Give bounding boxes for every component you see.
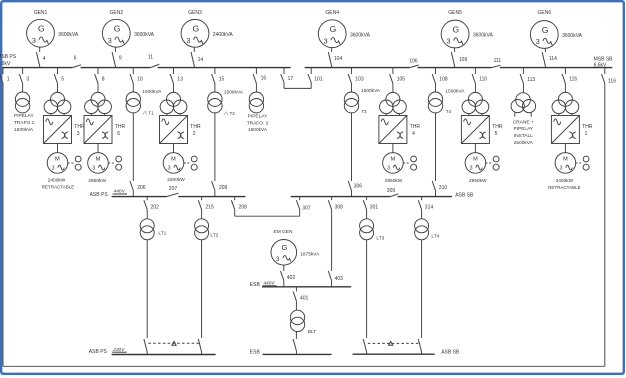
converter THR 5 <box>461 116 502 144</box>
svg-text:M: M <box>171 157 176 163</box>
transformer LT4 <box>415 210 440 240</box>
svg-text:GEN5: GEN5 <box>448 10 462 16</box>
svg-text:113: 113 <box>527 77 535 83</box>
breaker 6 (bus tie) <box>72 55 81 67</box>
svg-text:THR: THR <box>190 124 201 130</box>
three-winding transformer (THR 3 feed) <box>44 84 71 116</box>
wire bus-tie link <box>284 83 311 89</box>
wire <box>173 144 175 153</box>
svg-text:G: G <box>114 24 121 34</box>
motor 2400kW RETRACTABLE <box>42 153 74 190</box>
wire LT4 secondary <box>421 240 423 338</box>
svg-text:T3: T3 <box>361 109 367 114</box>
svg-text:LT1: LT1 <box>158 230 166 236</box>
svg-text:∕∖ T2: ∕∖ T2 <box>224 111 236 116</box>
motor 2950kW <box>465 153 487 184</box>
svg-text:5: 5 <box>61 76 64 82</box>
bus ASB SB 230V <box>353 349 460 355</box>
breaker 9 <box>112 47 122 68</box>
node delta symbol (PS) <box>172 341 176 345</box>
breaker 209 <box>212 181 228 197</box>
svg-text:M: M <box>563 157 568 163</box>
converter THR 1 <box>551 116 592 144</box>
svg-text:LT2: LT2 <box>210 232 218 238</box>
svg-text:3: 3 <box>276 256 280 263</box>
transformer LT1 <box>140 210 166 240</box>
svg-text:RETRACTABLE: RETRACTABLE <box>548 185 580 190</box>
fan <box>184 156 197 170</box>
svg-text:GEN2: GEN2 <box>109 10 123 16</box>
wire interconnector ring PS-SB <box>3 84 605 367</box>
converter THR 3 <box>44 116 85 144</box>
svg-text:1500kVA: 1500kVA <box>445 88 465 94</box>
wire <box>435 113 437 181</box>
svg-text:402: 402 <box>287 275 296 281</box>
svg-text:401: 401 <box>300 296 309 302</box>
svg-text:LT3: LT3 <box>376 235 384 241</box>
svg-text:ASB PS: ASB PS <box>90 192 109 198</box>
svg-text:13: 13 <box>177 76 183 82</box>
breaker 314 <box>418 197 433 211</box>
breaker 115 <box>562 68 577 84</box>
svg-text:GEN3: GEN3 <box>188 10 202 16</box>
svg-text:209: 209 <box>219 185 228 191</box>
svg-text:3: 3 <box>186 36 190 45</box>
svg-text:G: G <box>542 25 549 35</box>
wire <box>351 113 353 181</box>
svg-text:103: 103 <box>355 76 364 82</box>
svg-text:202: 202 <box>151 204 160 210</box>
svg-text:TRAFO. 2: TRAFO. 2 <box>247 120 269 126</box>
svg-text:PIPELAY: PIPELAY <box>248 114 268 120</box>
breaker 114 <box>542 48 557 67</box>
svg-text:1500kVA: 1500kVA <box>14 127 34 133</box>
fan <box>68 156 81 170</box>
breaker 109 <box>451 48 467 68</box>
breaker 307 <box>296 197 310 212</box>
svg-text:114: 114 <box>549 56 557 62</box>
breaker 103 <box>348 68 364 84</box>
breaker 206 <box>130 181 146 197</box>
svg-text:115: 115 <box>569 76 577 82</box>
svg-text:2500kVA: 2500kVA <box>514 140 534 146</box>
svg-text:4: 4 <box>43 56 46 62</box>
bus MSB SB 6,6kV <box>305 56 614 68</box>
svg-text:ESB: ESB <box>250 282 261 288</box>
svg-text:309: 309 <box>387 188 396 194</box>
three-winding transformer (THR 2 feed) <box>160 84 187 116</box>
transformer T3 1500kVA <box>344 84 381 114</box>
svg-text:5: 5 <box>495 131 498 137</box>
svg-text:108: 108 <box>439 76 448 82</box>
svg-text:16: 16 <box>261 76 267 82</box>
breaker 401 <box>293 287 308 302</box>
wire LT1 secondary <box>146 240 148 338</box>
svg-text:306: 306 <box>354 183 363 189</box>
svg-text:17: 17 <box>288 76 294 82</box>
svg-text:TRAFO 1: TRAFO 1 <box>14 120 35 126</box>
svg-text:3: 3 <box>470 165 473 171</box>
wire <box>474 144 476 153</box>
breaker LT1 LV <box>144 339 147 355</box>
svg-text:EM GEN: EM GEN <box>274 229 293 235</box>
wire LT3 secondary <box>366 240 368 338</box>
svg-text:THR: THR <box>115 124 126 130</box>
svg-text:208: 208 <box>239 204 248 210</box>
three-winding transformer (THR 5 feed) <box>462 84 489 116</box>
breaker 202 <box>144 197 159 211</box>
svg-text:206: 206 <box>137 185 146 191</box>
breaker 15 <box>212 68 225 84</box>
svg-text:GEN1: GEN1 <box>34 10 48 16</box>
svg-text:3600kVA: 3600kVA <box>473 33 494 39</box>
svg-text:THR: THR <box>582 124 593 130</box>
svg-text:GEN4: GEN4 <box>325 10 339 16</box>
generator GEN5 3600kVA <box>441 10 493 48</box>
bus ASB SB 440V <box>291 192 474 198</box>
fan <box>108 156 121 170</box>
svg-text:3: 3 <box>560 165 563 171</box>
svg-text:101: 101 <box>314 77 323 83</box>
svg-text:15: 15 <box>219 76 225 82</box>
bus ESB 440V <box>250 280 351 288</box>
svg-text:2950kW: 2950kW <box>469 178 487 184</box>
interlock dashed link (SB 230V) <box>368 342 421 344</box>
svg-text:ASB SB: ASB SB <box>441 349 460 355</box>
svg-text:308: 308 <box>335 204 344 210</box>
wire <box>214 113 216 181</box>
breaker 301 <box>363 197 378 211</box>
breaker 208 <box>231 197 247 211</box>
svg-text:RETRACTABLE: RETRACTABLE <box>42 185 74 190</box>
svg-text:THR: THR <box>410 124 421 130</box>
breaker 10 <box>130 68 143 84</box>
svg-text:6,6kV: 6,6kV <box>0 61 11 67</box>
svg-text:2400kW: 2400kW <box>48 178 66 184</box>
svg-text:ASB PS: ASB PS <box>89 349 108 355</box>
svg-text:8: 8 <box>102 76 105 82</box>
svg-text:2200kW: 2200kW <box>167 177 185 183</box>
svg-text:1: 1 <box>7 76 10 82</box>
svg-text:6: 6 <box>74 55 77 61</box>
svg-text:2950kW: 2950kW <box>385 178 403 184</box>
svg-text:14: 14 <box>198 57 204 63</box>
svg-text:3: 3 <box>32 36 36 45</box>
svg-text:215: 215 <box>205 204 214 210</box>
three-winding transformer (THR 1 feed) <box>552 84 579 116</box>
svg-text:9: 9 <box>119 56 122 62</box>
svg-text:M: M <box>96 157 101 163</box>
generator EM GEN 1875kVA <box>271 229 320 265</box>
svg-text:1500kVA: 1500kVA <box>224 89 244 95</box>
svg-text:2400kW: 2400kW <box>556 178 574 184</box>
wire <box>57 144 59 153</box>
motor 2200kW <box>163 153 185 184</box>
three-winding transformer CRANE+PIPELAY INSTALL 2500kVA <box>511 84 536 146</box>
svg-text:LT4: LT4 <box>431 233 439 239</box>
svg-text:4: 4 <box>412 131 415 137</box>
breaker 101 <box>308 68 323 89</box>
bus MSB PS 6,6kV <box>0 54 291 67</box>
interlock dashed link (PS 230V) <box>148 342 200 344</box>
svg-text:PIPELAY: PIPELAY <box>513 126 533 132</box>
svg-text:1: 1 <box>585 131 588 137</box>
svg-text:3: 3 <box>387 165 390 171</box>
node delta symbol (SB) <box>389 342 393 346</box>
svg-text:3: 3 <box>168 165 171 171</box>
breaker 309 (bus tie) <box>387 188 399 197</box>
svg-text:1500kVA: 1500kVA <box>361 88 381 94</box>
breaker 14 <box>191 47 203 67</box>
transformer T2 1500kVA <box>208 84 244 116</box>
svg-text:403: 403 <box>335 276 344 282</box>
motor 2950kW <box>383 153 404 184</box>
svg-text:ESB: ESB <box>250 349 261 355</box>
breaker 4 <box>36 47 45 68</box>
breaker 402 <box>281 265 296 287</box>
motor 2950kW <box>88 153 109 184</box>
svg-text:T4: T4 <box>446 109 452 114</box>
svg-text:110: 110 <box>479 76 487 82</box>
svg-text:3: 3 <box>447 37 451 46</box>
svg-text:3: 3 <box>92 165 95 171</box>
svg-text:G: G <box>330 24 337 34</box>
svg-text:11: 11 <box>148 55 153 61</box>
breaker 13 <box>170 68 183 84</box>
breaker 16 <box>253 68 266 84</box>
svg-text:3: 3 <box>324 36 328 45</box>
converter THR 6 <box>84 116 125 144</box>
breaker 105 <box>390 68 406 84</box>
breaker 306 <box>348 181 362 197</box>
breaker 111 (bus tie) <box>492 58 502 68</box>
wire <box>564 144 566 153</box>
svg-text:∕∖ T1: ∕∖ T1 <box>143 111 155 116</box>
converter THR 4 <box>379 116 420 144</box>
breaker 310 <box>432 181 447 197</box>
breaker 215 <box>198 197 214 211</box>
svg-text:CRANE +: CRANE + <box>513 119 534 125</box>
breaker 5 <box>54 68 64 84</box>
svg-text:INSTALL: INSTALL <box>514 133 533 139</box>
motor 2400kW RETRACTABLE <box>548 153 580 190</box>
svg-text:GEN6: GEN6 <box>537 10 551 16</box>
svg-text:G: G <box>38 24 45 34</box>
generator GEN6 3600kVA <box>530 10 582 48</box>
transformer T1 1500kVA <box>126 84 162 116</box>
svg-text:105: 105 <box>397 76 406 82</box>
transformer BLT <box>290 301 316 335</box>
wire <box>392 144 394 153</box>
svg-text:301: 301 <box>370 204 379 210</box>
svg-text:3600kVA: 3600kVA <box>562 33 583 39</box>
breaker 104 <box>328 48 342 68</box>
wire <box>132 113 134 181</box>
breaker 17 <box>281 68 294 83</box>
fan <box>576 156 589 170</box>
transformer LT2 <box>195 210 219 240</box>
svg-text:3: 3 <box>26 76 29 82</box>
wire LT2 secondary <box>201 240 203 338</box>
svg-text:G: G <box>281 243 287 252</box>
wire bridge 208-307 <box>235 210 300 217</box>
svg-text:M: M <box>55 157 60 163</box>
svg-text:ASB SB: ASB SB <box>455 192 474 198</box>
svg-text:310: 310 <box>439 185 448 191</box>
converter THR 2 <box>160 116 201 144</box>
transformer T4 1500kVA <box>428 84 465 114</box>
breaker LT2 LV <box>198 339 201 355</box>
svg-text:314: 314 <box>425 204 434 210</box>
breaker LT3 LV <box>363 339 366 354</box>
svg-text:10: 10 <box>137 76 143 82</box>
breaker (BLT LV) <box>293 332 296 355</box>
svg-text:111: 111 <box>494 58 502 64</box>
svg-text:MSB SB: MSB SB <box>594 56 614 62</box>
breaker 11 (bus tie) <box>148 55 159 68</box>
svg-text:G: G <box>453 24 460 34</box>
bus ASB PS 230V <box>89 347 216 355</box>
three-winding transformer (THR 4 feed) <box>380 84 407 116</box>
svg-text:109: 109 <box>459 57 468 63</box>
breaker 3 <box>19 68 29 84</box>
svg-text:207: 207 <box>169 186 178 192</box>
breaker 108 <box>432 68 448 84</box>
svg-text:2400kVA: 2400kVA <box>213 32 234 38</box>
svg-text:116: 116 <box>608 79 616 85</box>
generator GEN1 3600kVA <box>27 10 79 47</box>
svg-text:3: 3 <box>52 165 55 171</box>
svg-text:BLT: BLT <box>308 329 317 335</box>
bus ASB PS 440V <box>90 189 246 198</box>
svg-text:3: 3 <box>108 36 112 45</box>
transformer PIPELAY TRAFO 1 1500kVA <box>14 84 35 133</box>
generator GEN2 3600kVA <box>102 10 154 47</box>
svg-text:6: 6 <box>117 131 120 137</box>
svg-text:3600kVA: 3600kVA <box>350 32 371 38</box>
svg-text:2: 2 <box>193 131 196 137</box>
svg-text:2950kW: 2950kW <box>88 178 106 184</box>
breaker 8 <box>95 68 105 84</box>
generator GEN3 2400kVA <box>181 10 233 47</box>
three-winding transformer (THR 6 feed) <box>85 84 112 116</box>
svg-text:MSB PS: MSB PS <box>0 54 17 60</box>
svg-text:3: 3 <box>536 37 540 46</box>
breaker 110 <box>472 68 487 84</box>
svg-text:THR: THR <box>74 124 85 130</box>
breaker 308 <box>328 197 343 211</box>
bus ESB 230V (bottom) <box>250 349 332 355</box>
transformer LT3 <box>360 210 385 242</box>
breaker 403 <box>328 271 343 287</box>
svg-text:M: M <box>391 157 396 163</box>
svg-text:M: M <box>473 157 478 163</box>
svg-text:3: 3 <box>77 131 80 137</box>
svg-text:PIPELAY: PIPELAY <box>14 113 34 119</box>
svg-text:307: 307 <box>302 205 311 211</box>
breaker LT4 LV <box>418 339 421 354</box>
svg-text:1500kVA: 1500kVA <box>142 89 162 95</box>
breaker 1 <box>0 68 10 84</box>
wire <box>97 144 99 153</box>
svg-text:106: 106 <box>409 58 418 64</box>
generator GEN4 3600kVA <box>318 10 370 47</box>
svg-text:G: G <box>192 24 199 34</box>
svg-text:1500kVA: 1500kVA <box>248 127 268 133</box>
svg-text:3600kVA: 3600kVA <box>58 32 79 38</box>
breaker 106 (bus tie) <box>409 58 418 67</box>
wire <box>331 210 333 271</box>
breaker 116 <box>602 68 617 85</box>
breaker 113 <box>520 68 535 84</box>
svg-text:3600kVA: 3600kVA <box>134 32 155 38</box>
transformer PIPELAY TRAFO 2 1500kVA <box>247 84 269 134</box>
svg-text:1875kVA: 1875kVA <box>300 252 320 258</box>
breaker 207 (bus tie) <box>167 186 179 196</box>
svg-text:104: 104 <box>334 56 343 62</box>
svg-text:THR: THR <box>492 124 503 130</box>
fan <box>486 156 499 170</box>
fan <box>403 156 416 170</box>
